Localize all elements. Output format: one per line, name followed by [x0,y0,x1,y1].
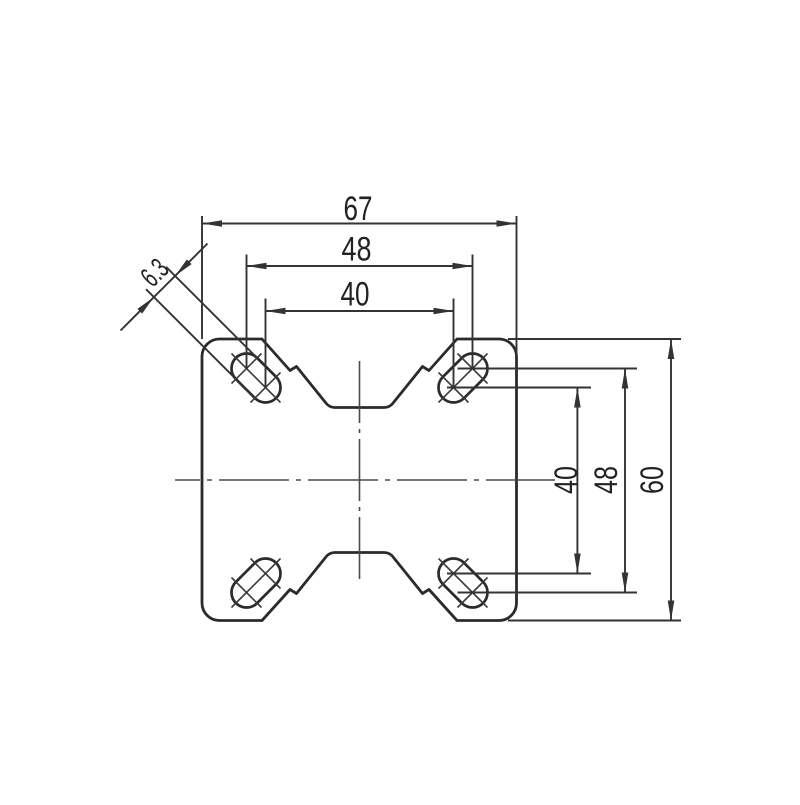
slot bottom-left [225,552,286,613]
slot bottom-left center cross lines [232,559,281,608]
vertical centerline [359,361,361,581]
slot top-right [432,347,493,408]
svg-text:67: 67 [344,190,373,228]
dimension 48 right [458,368,638,370]
svg-text:60: 60 [634,466,670,494]
svg-text:40: 40 [548,466,584,494]
svg-text:40: 40 [341,276,370,314]
slot top-left center cross lines [232,354,281,403]
dimension 40 top [265,299,267,388]
svg-text:48: 48 [588,466,624,494]
horizontal centerline [175,479,555,481]
dimension 60 right [508,338,681,340]
slot top-right center cross lines [439,354,488,403]
slot bottom-right [432,552,493,613]
dimension 67 top [201,216,203,339]
dimension 40 right [447,387,591,389]
dimension 48 top [246,255,248,369]
svg-text:48: 48 [342,231,372,269]
slot top-left [225,347,286,408]
plate outline [202,339,517,621]
dimension 6.3 slot [166,267,258,359]
slot bottom-right center cross lines [439,559,488,608]
